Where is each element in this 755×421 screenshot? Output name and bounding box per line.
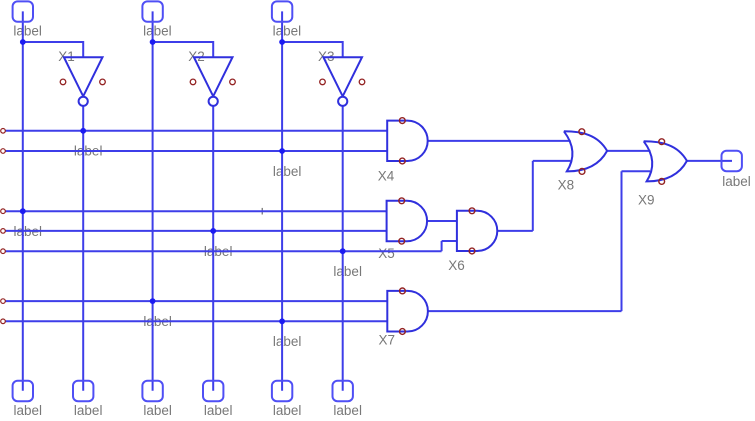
svg-text:label: label [273,403,302,418]
svg-text:label: label [74,403,103,418]
svg-text:X5: X5 [378,246,395,261]
svg-text:X6: X6 [448,258,465,273]
svg-text:label: label [273,24,302,39]
svg-text:label: label [204,403,233,418]
svg-text:X7: X7 [379,332,396,347]
svg-text:label: label [273,334,302,349]
svg-text:X9: X9 [638,193,655,208]
svg-text:label: label [13,24,42,39]
svg-text:label: label [143,24,172,39]
svg-text:label: label [273,164,302,179]
svg-text:X4: X4 [378,168,395,183]
svg-text:label: label [333,403,362,418]
svg-text:X8: X8 [558,178,575,193]
svg-text:label: label [722,174,751,189]
svg-text:label: label [143,403,172,418]
svg-text:label: label [14,403,43,418]
svg-text:label: label [333,264,362,279]
